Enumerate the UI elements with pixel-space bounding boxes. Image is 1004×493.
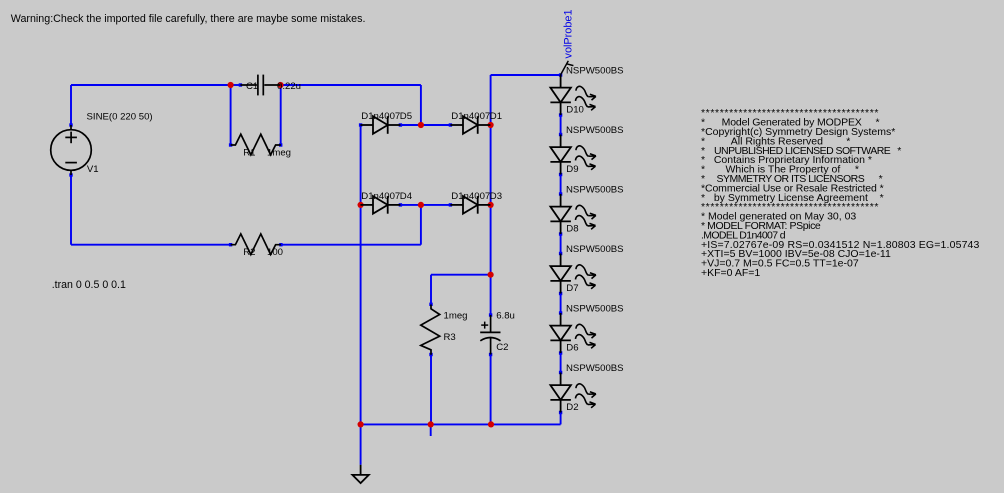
wire D7 to D6 xyxy=(560,294,562,314)
terminal D1 anode xyxy=(449,123,452,126)
terminal R2 pin 2 xyxy=(279,243,282,246)
terminal D2 cathode xyxy=(559,411,562,414)
svg-text:NSPW500BS: NSPW500BS xyxy=(566,125,624,136)
resistor R1 1meg xyxy=(231,134,281,155)
junction node DC+ mid xyxy=(488,202,494,208)
svg-text:C1: C1 xyxy=(246,81,258,92)
terminal D6 cathode xyxy=(559,351,562,354)
svg-text:0.22u: 0.22u xyxy=(277,81,301,92)
LED D2 NSPW500BS xyxy=(550,373,571,413)
wire V1 bottom xyxy=(70,175,72,245)
svg-text:D5: D5 xyxy=(400,111,412,122)
wire C1 left stub xyxy=(231,84,241,86)
wire bridge minus rail down xyxy=(360,205,362,425)
terminal D10 cathode xyxy=(559,113,562,116)
resistor R3 1meg xyxy=(421,305,440,355)
resistor R2 100 xyxy=(231,234,281,255)
terminal D3 anode xyxy=(449,203,452,206)
terminal D5 anode xyxy=(359,123,362,126)
svg-text:V1: V1 xyxy=(87,164,99,175)
junction node C1 right xyxy=(277,82,283,88)
svg-text:D1n4007: D1n4007 xyxy=(451,111,490,122)
svg-text:.tran 0 0.5 0 0.1: .tran 0 0.5 0 0.1 xyxy=(52,279,126,291)
svg-text:6.8u: 6.8u xyxy=(496,310,515,321)
terminal C2 minus xyxy=(489,353,492,356)
wire top to LED chain xyxy=(491,74,561,76)
svg-text:D7: D7 xyxy=(566,283,578,294)
junction node ground rail R3 xyxy=(428,421,434,427)
terminal D6 anode xyxy=(559,311,562,314)
LED D9 NSPW500BS xyxy=(550,135,571,175)
terminal D8 anode xyxy=(559,192,562,195)
junction node DC+ top xyxy=(488,122,494,128)
svg-text:NSPW500BS: NSPW500BS xyxy=(566,244,624,255)
voltage probe volProbe1 xyxy=(561,61,574,75)
wire bridge plus top xyxy=(490,75,492,125)
svg-text:R2: R2 xyxy=(243,247,255,258)
svg-text:100: 100 xyxy=(267,247,283,258)
junction node ground rail left xyxy=(358,421,364,427)
svg-text:NSPW500BS: NSPW500BS xyxy=(566,363,624,374)
terminal D7 anode xyxy=(559,252,562,255)
svg-text:NSPW500BS: NSPW500BS xyxy=(566,185,624,196)
wire C1 to R1 right xyxy=(280,85,282,145)
svg-text:D9: D9 xyxy=(566,164,578,175)
wire down to bridge AC1 xyxy=(420,85,422,125)
terminal R1 pin 1 xyxy=(229,143,232,146)
wire D8 to D7 xyxy=(560,234,562,254)
svg-text:D1n4007: D1n4007 xyxy=(361,111,400,122)
terminal D4 cathode xyxy=(399,203,402,206)
wire C1 to R1 left xyxy=(230,85,232,145)
terminal R3 pin 1 xyxy=(429,303,432,306)
diode D1 D1n4007 xyxy=(450,116,490,134)
wire R3 top lead xyxy=(430,275,432,305)
wire R3 bottom lead xyxy=(430,355,432,425)
LED D6 NSPW500BS xyxy=(550,313,571,353)
svg-text:NSPW500BS: NSPW500BS xyxy=(566,66,624,77)
capacitor C2 6.8u polarized xyxy=(480,315,500,355)
junction node AC2 xyxy=(418,202,424,208)
junction node AC1 xyxy=(418,122,424,128)
capacitor C1 0.22u xyxy=(240,75,280,96)
diode D3 D1n4007 xyxy=(450,196,490,214)
junction node C1 left xyxy=(228,82,234,88)
terminal C2 plus xyxy=(489,313,492,316)
terminal R2 pin 1 xyxy=(229,243,232,246)
wire bottom rail right xyxy=(281,244,421,246)
LED D7 NSPW500BS xyxy=(550,254,571,294)
wire D5 anode to D4 anode xyxy=(360,125,362,205)
diode D4 D1n4007 xyxy=(360,196,400,214)
svg-text:SINE(0 220 50): SINE(0 220 50) xyxy=(87,112,153,123)
terminal D10 anode xyxy=(559,73,562,76)
svg-text:D1n4007: D1n4007 xyxy=(451,191,490,202)
svg-text:D10: D10 xyxy=(566,105,584,116)
svg-text:D4: D4 xyxy=(400,191,413,202)
terminal D2 anode xyxy=(559,371,562,374)
svg-text:D1n4007: D1n4007 xyxy=(361,191,400,202)
voltage source V1 SINE(0 220 50) xyxy=(51,125,92,175)
wire top rail right xyxy=(281,84,421,86)
wire node to R3 branch xyxy=(431,274,491,276)
wire D10 to D9 xyxy=(560,115,562,135)
wire AC2 down xyxy=(420,205,422,245)
wire ground rail xyxy=(361,423,561,425)
wire D6 to D2 xyxy=(560,353,562,373)
terminal C1 pin 1 xyxy=(239,83,242,86)
wire D9 to D8 xyxy=(560,175,562,195)
svg-text:R3: R3 xyxy=(444,332,456,343)
wire C2 bottom down xyxy=(490,355,492,425)
wire bottom rail left xyxy=(71,244,231,246)
junction node ground rail C2 xyxy=(488,421,494,427)
wire to ground symbol xyxy=(360,424,362,464)
terminal V1 plus xyxy=(69,123,72,126)
terminal R1 pin 2 xyxy=(279,143,282,146)
svg-text:D2: D2 xyxy=(566,402,578,413)
terminal D9 anode xyxy=(559,133,562,136)
svg-text:C2: C2 xyxy=(496,342,508,353)
wire top rail left xyxy=(71,84,231,86)
svg-text:D8: D8 xyxy=(566,224,578,235)
svg-text:volProbe1: volProbe1 xyxy=(563,9,575,58)
diode D5 D1n4007 xyxy=(360,116,400,134)
wire node AC1 to D1 anode xyxy=(421,124,451,126)
svg-text:D6: D6 xyxy=(566,343,578,354)
wire plus rail to node xyxy=(490,205,492,275)
junction node bridge minus xyxy=(358,202,364,208)
wire D1 to D3 cathodes xyxy=(490,125,492,205)
wire D4 cathode to node AC2 xyxy=(400,204,421,206)
svg-text:1meg: 1meg xyxy=(267,148,291,159)
terminal D9 cathode xyxy=(559,173,562,176)
LED D8 NSPW500BS xyxy=(550,194,571,234)
wire stub below rail xyxy=(430,424,432,436)
svg-text:Warning:Check the imported fil: Warning:Check the imported file carefull… xyxy=(11,13,366,25)
wire D2 to ground rail xyxy=(560,413,562,425)
svg-text:1meg: 1meg xyxy=(444,310,468,321)
terminal D7 cathode xyxy=(559,292,562,295)
svg-text:D1: D1 xyxy=(490,111,502,122)
junction node filter top xyxy=(488,272,494,278)
svg-text:D3: D3 xyxy=(490,191,502,202)
terminal D5 cathode xyxy=(399,123,402,126)
svg-text:NSPW500BS: NSPW500BS xyxy=(566,304,624,315)
terminal D8 cathode xyxy=(559,232,562,235)
wire node to C2 top xyxy=(490,275,492,315)
wire D5 cathode to node AC1 xyxy=(400,124,421,126)
svg-text:R1: R1 xyxy=(243,148,255,159)
terminal V1 minus xyxy=(69,173,72,176)
wire V1 top to top rail xyxy=(70,85,72,125)
wire node AC2 to D3 anode xyxy=(421,204,451,206)
ground xyxy=(352,465,368,483)
terminal R3 pin 2 xyxy=(429,353,432,356)
LED D10 NSPW500BS xyxy=(550,75,571,115)
